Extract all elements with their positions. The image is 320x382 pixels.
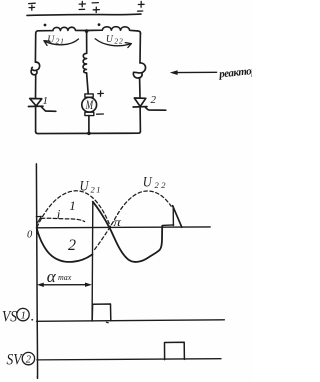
label u21 chart	[80, 179, 103, 195]
svg-text:U: U	[47, 34, 55, 46]
thyristor VS1	[30, 99, 42, 106]
svg-text:π: π	[113, 215, 122, 229]
U22 label arrow (curved)	[95, 39, 130, 46]
svg-text:i: i	[57, 206, 61, 221]
svg-text:2: 2	[26, 355, 32, 366]
label U21 circuit	[47, 34, 64, 46]
thyristor VS2	[134, 98, 146, 107]
reactor pointer arrow	[175, 71, 217, 73]
svg-text:max: max	[58, 273, 72, 282]
polarity marks stack 3 (minus over plus)	[92, 3, 99, 13]
label U22 circuit	[106, 33, 124, 45]
svg-text:1: 1	[43, 95, 49, 107]
wire below thyristor 1	[35, 107, 37, 132]
wire right branch to thyristor	[139, 78, 141, 97]
svg-text:2: 2	[151, 94, 157, 106]
bottom wire	[36, 131, 141, 133]
secondary winding U21 coil and wire	[36, 27, 87, 33]
x axis	[37, 226, 211, 229]
svg-text:2: 2	[68, 237, 76, 254]
reactor loop left	[32, 62, 40, 70]
secondary winding U22 coil and wire	[87, 27, 141, 34]
svg-text:1: 1	[21, 311, 26, 322]
transformer primary winding (top line)	[27, 14, 141, 15]
small tick below VS1 line	[106, 321, 108, 324]
polarity marks stack 4 (plus over minus)	[138, 1, 145, 11]
VS1 axis line	[37, 320, 225, 322]
polarity dot left winding	[44, 24, 47, 27]
svg-text:21: 21	[56, 37, 65, 46]
polarity marks stack 1 (minus over plus)	[29, 3, 36, 10]
label u22 chart	[143, 175, 168, 191]
label VS1	[2, 309, 17, 326]
dashed current line i	[41, 218, 84, 221]
dashed curve u22	[95, 191, 172, 250]
svg-text:U: U	[106, 33, 114, 45]
reactor loop right	[134, 63, 146, 73]
svg-text:22: 22	[114, 36, 123, 45]
polarity marks stack 2 (plus over minus)	[79, 1, 85, 9]
minus sign at motor	[97, 113, 104, 115]
motor M	[85, 94, 93, 97]
wire motor to bottom	[88, 116, 90, 134]
solid step after commutation	[162, 224, 173, 227]
vertical firing line at alpha max	[91, 202, 94, 321]
y axis (long vertical)	[36, 164, 37, 378]
polarity dot right winding	[98, 23, 101, 26]
svg-text:SV: SV	[7, 352, 24, 369]
VS1 gate pulse	[92, 304, 111, 321]
wire coil to motor	[87, 73, 89, 94]
svg-text:1: 1	[69, 198, 76, 213]
commutation spike triangle	[172, 206, 174, 225]
svg-text:U: U	[143, 175, 153, 191]
svg-text:M: M	[85, 98, 94, 112]
SV2 axis line	[37, 359, 221, 360]
dashed curve u21	[37, 191, 111, 228]
smoothing coil center	[83, 53, 87, 73]
label alpha max	[47, 267, 72, 286]
svg-text:21: 21	[91, 185, 103, 195]
svg-text:U: U	[80, 179, 90, 195]
svg-text:22: 22	[155, 180, 169, 190]
svg-text:реактор: реактор	[218, 65, 252, 81]
wire left branch to thyristor	[35, 75, 37, 98]
alpha max dimension arrow	[40, 284, 90, 286]
U21 label arrow (curved)	[45, 39, 79, 45]
wire right branch upper	[139, 33, 141, 63]
wire center branch upper	[86, 32, 88, 54]
svg-text:α: α	[47, 267, 57, 286]
wire left branch upper	[34, 33, 36, 62]
tick at start of i line	[36, 216, 41, 224]
svg-text:VS: VS	[2, 309, 17, 326]
wire below thyristor 2	[139, 107, 141, 132]
SV2 gate pulse	[165, 342, 185, 359]
plus sign at motor	[98, 91, 104, 96]
solid wave segment u21 conduction	[93, 202, 162, 262]
svg-text:0: 0	[27, 230, 33, 241]
bottom node	[87, 132, 91, 136]
label SV2	[7, 352, 24, 369]
solid wave segment 2 (first negative hump)	[37, 228, 93, 262]
center tap node	[85, 29, 89, 33]
